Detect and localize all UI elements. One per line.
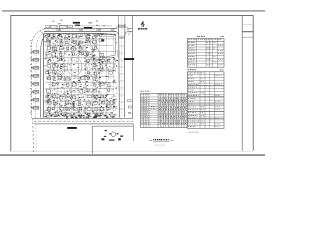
junction crosswalk ticks top road west [111, 29, 113, 32]
small marks right margin [128, 100, 131, 102]
building cluster texture [46, 34, 113, 116]
road name label A [73, 22, 80, 24]
wall short segments [44, 35, 116, 117]
gray tone patches [44, 34, 116, 117]
dark band speckle [45, 34, 118, 118]
building cluster speckle [46, 34, 118, 117]
junction fillet SW [114, 31, 119, 36]
legend stamp cluster [105, 130, 107, 131]
central plaza ellipse inner [70, 61, 79, 73]
left road small dots [29, 39, 32, 42]
tree circles [44, 35, 116, 116]
crosswalk ticks top road [56, 29, 58, 32]
internal path lines [44, 34, 117, 115]
bold label right of road [124, 58, 134, 60]
bottom road name label [67, 127, 77, 129]
top road north sideline [50, 25, 112, 27]
central plaza ellipse outer [67, 58, 82, 76]
legend box right [133, 124, 135, 141]
buildings north of road [51, 26, 58, 28]
bottom road edge 1 [33, 118, 133, 120]
north arrow symbol [142, 21, 144, 27]
extra top-area buildings [46, 25, 50, 27]
junction crosswalk ticks vertical road [119, 24, 125, 26]
middle table [141, 93, 187, 127]
bottom road edge 2 [34, 123, 134, 125]
right road center dash [121, 16, 123, 118]
vertical building strips [47, 35, 115, 115]
mark at bottom left of legend [101, 138, 104, 140]
right road left edge [118, 25, 121, 118]
bottom road ticks [39, 119, 41, 121]
dark blob SW of junction [101, 39, 104, 41]
sheet border top [11, 14, 254, 16]
junction fillet NW [114, 24, 119, 29]
right boundary line [131, 16, 133, 119]
right road gray median band [117, 50, 120, 57]
right road right edge [123, 25, 126, 118]
right table 2 title [188, 68, 189, 71]
road name label B [84, 27, 93, 29]
bush dots east of junction [127, 29, 128, 30]
middle table title [141, 90, 143, 93]
junction fillet SE [125, 31, 130, 36]
plaza inner specks [69, 60, 79, 73]
bottom road center dashed [34, 120, 133, 122]
left road inner edge [41, 34, 49, 47]
right table 1 title [196, 35, 199, 38]
sheet border left [10, 15, 12, 151]
right table 1 speckle [188, 39, 223, 65]
legend box left [91, 126, 93, 154]
sheet border right [252, 15, 254, 150]
right road median ticks [119, 45, 124, 47]
title block divider light [242, 24, 253, 26]
top road upper edge [44, 27, 117, 29]
title block divider mid [242, 36, 253, 38]
top road extra line [46, 33, 108, 35]
note under right table 2 [187, 131, 190, 134]
caption under middle table [153, 139, 154, 140]
middle table text speckle [141, 94, 186, 123]
extra south lines near junction [101, 34, 114, 36]
ramp diagonal dashes top-left [41, 32, 43, 33]
right table 2 [187, 72, 224, 129]
site north edge [44, 33, 104, 35]
junction fillet NE [125, 24, 130, 29]
left road lower dashed continuation [32, 118, 35, 152]
bottom page edge line [0, 154, 265, 156]
right table 1 [187, 38, 224, 67]
dense bottom edge of cluster [45, 115, 115, 119]
left road platform marks [33, 51, 38, 54]
road label A underline blob [75, 25, 80, 26]
right table 2 speckle [188, 73, 222, 127]
left road outer dashed edge [31, 29, 44, 45]
title block inner vertical [241, 15, 243, 150]
small mark left of legend [118, 138, 121, 140]
top road lower edge [44, 30, 116, 32]
open field polygon [96, 34, 116, 58]
top road lines east of junction [130, 27, 133, 29]
left road center dashed [36, 32, 47, 47]
top page edge line [2, 10, 265, 11]
top road center dashed [45, 29, 117, 31]
sheet border bottom (faint) [11, 150, 253, 152]
faint text near bottom [155, 144, 156, 147]
site west boundary [43, 34, 45, 118]
north arrow caption [138, 28, 140, 29]
title block divider dark [242, 30, 253, 33]
legend box top [92, 125, 133, 127]
